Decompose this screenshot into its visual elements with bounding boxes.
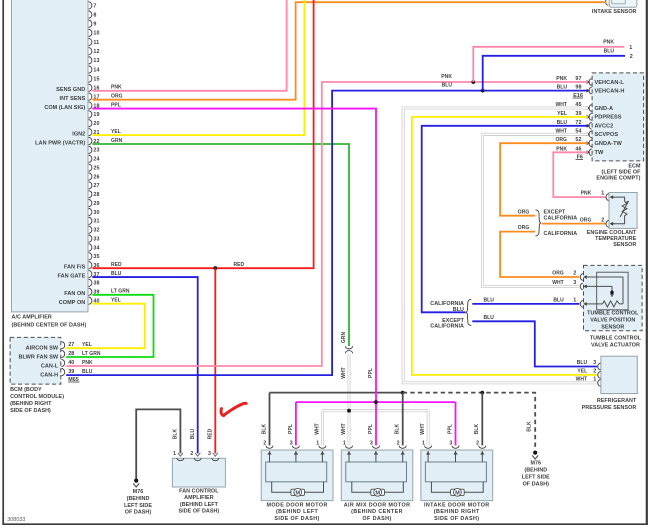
refrigerant pressure sensor pin 1 [576, 377, 601, 387]
svg-text:CAN-L: CAN-L [41, 364, 59, 370]
BCM connector pins 27/28/40/39 [19, 342, 101, 379]
svg-text:GRN: GRN [341, 332, 347, 344]
wire LT GRN pin39 FAN ON to BCM pin 28 [66, 289, 153, 357]
potentiometer inner box [597, 272, 628, 310]
refrigerant pressure sensor caption [582, 398, 637, 411]
potentiometer element and wiper [587, 277, 623, 307]
wire BLK riser to air mix door motor pin 2 [395, 393, 407, 449]
wire PNK pin16 SENS GND [92, 0, 286, 91]
svg-text:COM (LAN SIG): COM (LAN SIG) [44, 105, 85, 111]
wire WHT rail [322, 409, 428, 412]
wire PPL rail [296, 401, 456, 403]
svg-text:OF DASH): OF DASH) [125, 510, 152, 516]
svg-text:BLK: BLK [173, 428, 179, 439]
svg-text:SIDE OF DASH): SIDE OF DASH) [274, 516, 319, 522]
refrigerant pressure sensor pin 2 [577, 369, 600, 379]
svg-text:34: 34 [93, 245, 99, 251]
engine coolant temperature sensor pin 1 connector [581, 191, 614, 201]
svg-text:1: 1 [593, 377, 596, 383]
svg-text:AIRCON SW: AIRCON SW [26, 346, 59, 352]
svg-text:BLU: BLU [190, 428, 196, 439]
svg-text:BLU: BLU [453, 307, 464, 313]
wire YEL pin40 COMP ON to BCM pin 27 [66, 298, 145, 349]
thermistor inside engine coolant temperature sensor [611, 197, 629, 224]
wire WHT riser to air mix door motor pin 1 [341, 423, 353, 448]
svg-text:308033: 308033 [7, 517, 25, 523]
svg-text:SIDE OF DASH): SIDE OF DASH) [434, 516, 479, 522]
svg-text:38: 38 [93, 281, 99, 287]
svg-text:26: 26 [93, 174, 99, 180]
red check mark annotation [221, 403, 246, 415]
svg-text:GRN: GRN [111, 138, 123, 144]
svg-text:BLU: BLU [484, 315, 495, 321]
svg-text:INTAKE SENSOR: INTAKE SENSOR [592, 9, 637, 15]
BCM caption [10, 387, 64, 414]
junction on FAN F/S red wire [213, 266, 217, 270]
ECM connector id F6 [576, 154, 584, 160]
svg-text:1: 1 [573, 298, 576, 304]
svg-text:3: 3 [208, 451, 211, 457]
A/C amplifier connector pins 7-40 [89, 2, 100, 305]
svg-text:MODE DOOR MOTOR: MODE DOOR MOTOR [266, 502, 327, 508]
engine coolant temperature sensor pin 2 connector [580, 217, 613, 227]
wire WHT feeder from splice to door motors [341, 354, 349, 446]
mode door motor [261, 450, 333, 522]
svg-text:29: 29 [93, 201, 99, 207]
svg-text:WHT: WHT [420, 423, 426, 435]
svg-text:1: 1 [173, 451, 176, 457]
svg-text:FAN ON: FAN ON [64, 291, 85, 297]
tumble control valve position sensor box (dashed) [584, 265, 643, 330]
svg-text:PDPRESS: PDPRESS [595, 115, 622, 121]
A/C amplifier module box [12, 0, 89, 312]
svg-text:23: 23 [93, 148, 99, 154]
svg-text:WHT: WHT [314, 423, 320, 435]
wire PPL pin18 COM (LAN SIG) feeder to door motors [92, 102, 376, 445]
svg-text:VALVE ACTUATOR: VALVE ACTUATOR [591, 342, 640, 348]
svg-text:INT SENS: INT SENS [60, 96, 86, 102]
svg-text:RED: RED [208, 428, 214, 439]
engine coolant temperature sensor box [609, 193, 637, 229]
svg-text:19: 19 [93, 112, 99, 118]
svg-text:15: 15 [93, 76, 99, 82]
svg-text:13: 13 [93, 58, 99, 64]
wire BLK fan control amplifier pin 1 to ground M76 [136, 409, 180, 478]
svg-text:GND-A: GND-A [595, 106, 614, 112]
wire WHT riser to mode door motor pin 1 [314, 411, 326, 449]
svg-text:INTAKE DOOR MOTOR: INTAKE DOOR MOTOR [424, 502, 490, 508]
intake sensor box [609, 0, 637, 7]
ECM connector id E16 [573, 93, 584, 99]
svg-text:YEL: YEL [111, 129, 121, 135]
svg-text:ORG: ORG [580, 217, 592, 223]
A/C amplifier caption [12, 315, 87, 329]
svg-text:28: 28 [93, 192, 99, 198]
fan control amplifier caption [179, 489, 220, 515]
refrigerant pressure sensor pin 3 [577, 360, 601, 370]
svg-text:BLU: BLU [484, 298, 495, 304]
junction BLK rail at air mix motor [401, 391, 405, 395]
svg-text:2: 2 [630, 54, 633, 60]
svg-text:SIDE OF DASH): SIDE OF DASH) [179, 509, 220, 515]
engine coolant temperature sensor caption [587, 230, 637, 248]
svg-text:35: 35 [93, 254, 99, 260]
svg-text:TUMBLE CONTROL: TUMBLE CONTROL [587, 311, 639, 317]
wire PNK branch to pin 1 (top right) [473, 39, 632, 82]
svg-text:AVCC2: AVCC2 [595, 124, 614, 130]
page border frame left [2, 0, 4, 525]
label EXCEPT CALIFORNIA (ECT) [544, 210, 578, 222]
junction BLK rail at intake motor [480, 391, 484, 395]
fan control amplifier connector pins 1-3 [173, 451, 219, 460]
svg-text:WHT: WHT [552, 280, 564, 286]
svg-text:PNK: PNK [581, 191, 592, 197]
svg-text:BLK: BLK [261, 423, 267, 434]
A/C amplifier pin function labels [35, 87, 85, 306]
svg-text:VEHCAN-H: VEHCAN-H [595, 88, 625, 94]
air mix door motor [341, 450, 413, 522]
svg-text:LAN PWR (VACTR): LAN PWR (VACTR) [35, 140, 85, 146]
wire BLU except california to refrigerant pressure sensor pin 3 [472, 315, 597, 367]
BCM connector id M65 [68, 377, 79, 383]
wire BLU AVCC2 to california brace [422, 126, 588, 312]
svg-text:25: 25 [93, 165, 99, 171]
svg-text:PPL: PPL [288, 424, 294, 434]
svg-text:BLU: BLU [111, 271, 122, 277]
ground M76 (left) [133, 479, 139, 488]
svg-text:ORG: ORG [518, 225, 530, 231]
svg-text:3: 3 [573, 280, 576, 286]
svg-text:ENGINE COMPT): ENGINE COMPT) [596, 176, 640, 182]
wire PNK CAN-L from BCM to ECM VEHCAN-L [66, 74, 588, 366]
svg-text:BLWR FAN SW: BLWR FAN SW [19, 355, 59, 361]
wire BLU CAN-H from BCM to ECM VEHCAN-H [66, 83, 588, 376]
wire PPL riser to intake door motor pin 3 [447, 402, 459, 448]
wire RED pin36 FAN F/S [92, 0, 313, 268]
svg-text:RED: RED [234, 262, 245, 268]
wire ORG merged to engine coolant temperature sensor pin 2 [542, 223, 606, 225]
svg-text:(BEHIND CENTER: (BEHIND CENTER [351, 509, 403, 515]
ground M76 (right) caption [522, 461, 550, 488]
svg-text:27: 27 [93, 183, 99, 189]
svg-text:M: M [455, 490, 460, 496]
svg-text:BLK: BLK [527, 421, 533, 432]
svg-text:(BEHIND RIGHT: (BEHIND RIGHT [434, 509, 480, 515]
svg-text:9: 9 [93, 22, 96, 28]
svg-text:A/C AMPLIFIER: A/C AMPLIFIER [12, 315, 52, 321]
svg-text:1: 1 [601, 191, 604, 197]
svg-text:LEFT SIDE: LEFT SIDE [124, 503, 152, 509]
svg-text:PNK: PNK [441, 74, 452, 80]
svg-text:BLU: BLU [442, 83, 453, 89]
svg-text:CAN-H: CAN-H [40, 373, 58, 379]
svg-text:SCVPOS: SCVPOS [595, 132, 619, 138]
svg-text:BLK: BLK [395, 423, 401, 434]
svg-text:PNK: PNK [603, 39, 614, 45]
fan control amplifier box [172, 458, 225, 487]
junction PPL rail at feeder [374, 400, 378, 404]
svg-text:AMPLIFIER: AMPLIFIER [184, 495, 214, 501]
svg-text:ORG: ORG [518, 209, 530, 215]
svg-text:12: 12 [93, 49, 99, 55]
svg-text:RED: RED [111, 262, 122, 268]
svg-text:REFRIGERANT: REFRIGERANT [597, 398, 637, 404]
svg-text:(BEHIND LEFT: (BEHIND LEFT [180, 502, 219, 508]
wire PNK TW to engine coolant temperature sensor pin 1 [553, 152, 606, 197]
wire ORG california branch from brace to tumble control valve position sensor pin 2 [500, 225, 579, 277]
label CALIFORNIA BLU [430, 301, 464, 313]
svg-text:2: 2 [593, 369, 596, 375]
svg-text:COMP ON: COMP ON [59, 300, 86, 306]
wire YEL pin21 IGN2 [92, 0, 304, 135]
svg-text:CALIFORNIA: CALIFORNIA [430, 324, 464, 330]
tumble control valve actuator caption [590, 336, 642, 349]
wire BLK riser to intake door motor pin 2 [474, 393, 486, 449]
svg-text:(BEHIND CENTER OF DASH): (BEHIND CENTER OF DASH) [12, 322, 87, 328]
BCM module box (dashed) [10, 337, 61, 384]
tumble sensor pin 2 connector [552, 271, 587, 281]
svg-text:TW: TW [595, 150, 604, 156]
page border frame right [646, 0, 648, 525]
wire WHT riser to intake door motor pin 1 [420, 411, 432, 449]
svg-text:PPL: PPL [111, 102, 121, 108]
svg-text:31: 31 [93, 219, 99, 225]
svg-text:ORG: ORG [552, 271, 564, 277]
svg-text:BLU: BLU [604, 48, 615, 54]
intake door motor [421, 450, 493, 522]
svg-text:VEHCAN-L: VEHCAN-L [595, 80, 625, 86]
wire YEL PDPRESS to refrigerant pressure sensor pin 2 [412, 117, 597, 375]
svg-text:(BEHIND RIGHT: (BEHIND RIGHT [10, 401, 52, 407]
wire ORG GNDA-TW to except-california brace [500, 143, 588, 216]
ground M76 (left) caption [124, 489, 152, 516]
ECM connector pins [555, 76, 624, 156]
wire WHT GND-A to refrigerant pressure sensor pin 1 [403, 108, 597, 383]
svg-text:WHT: WHT [341, 423, 347, 435]
wire BLU california to tumble control valve position sensor pin 1 [472, 298, 579, 304]
svg-text:CONTROL MODULE): CONTROL MODULE) [10, 394, 64, 400]
svg-text:TUMBLE CONTROL: TUMBLE CONTROL [590, 336, 642, 342]
svg-text:32: 32 [93, 228, 99, 234]
svg-text:SIDE OF DASH): SIDE OF DASH) [10, 408, 51, 414]
label EXCEPT CALIFORNIA [430, 318, 464, 330]
svg-text:3: 3 [593, 360, 596, 366]
wire BLU branch to pin 2 (top right) [483, 48, 633, 90]
svg-text:GNDA-TW: GNDA-TW [595, 141, 623, 147]
wire BLK ground rail (dashed to M76) [403, 393, 536, 450]
svg-text:M76: M76 [133, 489, 144, 495]
intake sensor connector [606, 0, 609, 5]
tumble sensor pin 3 connector [552, 280, 587, 290]
svg-text:LEFT SIDE: LEFT SIDE [522, 474, 550, 480]
svg-text:20: 20 [93, 121, 99, 127]
svg-text:YEL: YEL [111, 298, 121, 304]
svg-text:(BEHIND: (BEHIND [127, 496, 150, 502]
svg-text:11: 11 [93, 40, 99, 46]
svg-text:M: M [295, 490, 300, 496]
refrigerant pressure sensor box [601, 356, 637, 393]
svg-text:CALIFORNIA: CALIFORNIA [544, 216, 578, 222]
wire BLK ground rail (solid part) [270, 392, 403, 394]
wire RED branch to fan control amplifier pin 3 [208, 268, 216, 453]
svg-text:33: 33 [93, 236, 99, 242]
tumble sensor pin 1 connector [553, 298, 586, 308]
svg-text:M76: M76 [530, 461, 541, 467]
svg-text:10: 10 [93, 31, 99, 37]
svg-text:FAN F/S: FAN F/S [64, 265, 86, 271]
svg-text:OF DASH): OF DASH) [362, 516, 391, 522]
svg-text:30: 30 [93, 210, 99, 216]
svg-text:AIR MIX DOOR MOTOR: AIR MIX DOOR MOTOR [344, 502, 411, 508]
svg-text:PPL: PPL [368, 424, 374, 434]
svg-text:PRESSURE SENSOR: PRESSURE SENSOR [582, 405, 637, 411]
svg-text:BCM (BODY: BCM (BODY [10, 387, 42, 393]
svg-text:WHT: WHT [341, 367, 347, 379]
svg-text:(BEHIND: (BEHIND [524, 468, 547, 474]
brace california/except california (BLU) [466, 299, 472, 325]
junction on CAN-H wire [481, 89, 485, 93]
svg-text:BLU: BLU [577, 360, 588, 366]
svg-text:2: 2 [601, 217, 604, 223]
svg-text:FAN GATE: FAN GATE [57, 273, 85, 279]
svg-text:SENS GND: SENS GND [56, 87, 85, 93]
svg-text:1: 1 [629, 45, 632, 51]
svg-text:OF DASH): OF DASH) [523, 481, 550, 487]
wire BLU pin37 FAN GATE to fan control amplifier pin 2 [92, 271, 197, 453]
svg-text:VALVE POSITION: VALVE POSITION [590, 317, 635, 323]
wire PPL riser to air mix door motor pin 3 [368, 424, 380, 448]
svg-text:BLU: BLU [553, 298, 564, 304]
ground M76 (right) [532, 451, 538, 460]
svg-text:CALIFORNIA: CALIFORNIA [544, 231, 578, 237]
svg-text:FAN CONTROL: FAN CONTROL [179, 489, 219, 495]
svg-text:LT GRN: LT GRN [111, 289, 130, 295]
svg-text:WHT: WHT [576, 377, 588, 383]
svg-text:SENSOR: SENSOR [613, 242, 636, 248]
brace except-california/california (ORG) [536, 210, 542, 236]
svg-text:14: 14 [93, 67, 99, 73]
ECM caption [596, 164, 641, 182]
svg-text:PPL: PPL [447, 424, 453, 434]
svg-text:IGN2: IGN2 [72, 132, 85, 138]
ECM module box (dashed) [592, 73, 644, 161]
svg-text:8: 8 [93, 12, 96, 18]
svg-text:2: 2 [573, 271, 576, 277]
svg-text:ORG: ORG [111, 94, 123, 100]
svg-text:BLK: BLK [474, 423, 480, 434]
wire WHT SCVPOS to tumble control valve position sensor pin 3 [482, 134, 588, 286]
svg-text:(BEHIND LEFT: (BEHIND LEFT [276, 509, 319, 515]
inline connector GRN-WHT splice [345, 346, 352, 353]
svg-text:PPL: PPL [368, 368, 374, 378]
svg-text:7: 7 [93, 3, 96, 9]
svg-text:SENSOR: SENSOR [601, 324, 624, 330]
junction on CAN-L wire [471, 80, 475, 84]
wire ORG pin17 INT SENS to intake sensor [92, 2, 606, 99]
wire PPL riser to mode door motor pin 3 [288, 402, 300, 448]
svg-text:24: 24 [93, 157, 99, 163]
tumble control valve position sensor caption [587, 311, 639, 331]
svg-text:YEL: YEL [577, 369, 587, 375]
wire BLK riser to mode door motor pin 2 [261, 393, 273, 449]
page border frame bottom [2, 523, 648, 525]
svg-text:2: 2 [190, 451, 193, 457]
svg-text:PNK: PNK [111, 85, 122, 91]
wire GRN pin22 LAN PWR (VACTR) [92, 138, 349, 346]
junction WHT rail at feeder [347, 409, 351, 413]
svg-text:M: M [375, 490, 380, 496]
